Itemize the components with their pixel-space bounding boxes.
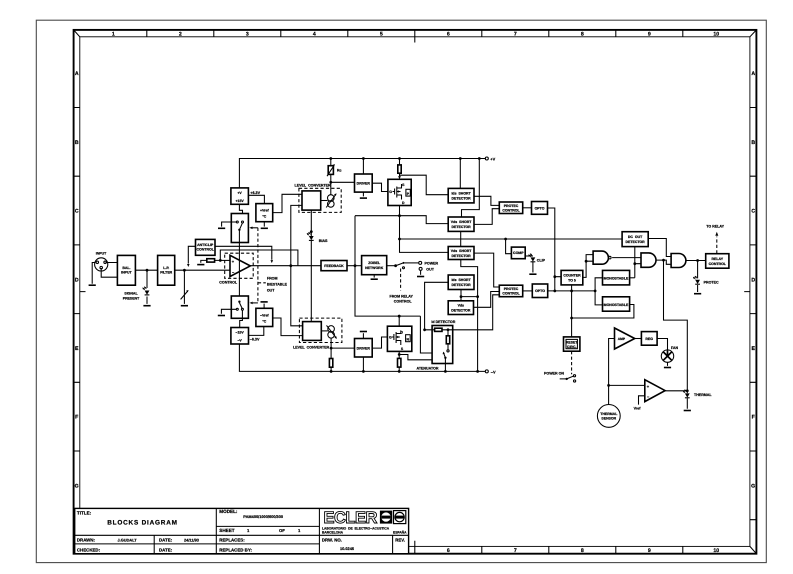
svg-text:DETECTOR: DETECTOR <box>452 254 472 258</box>
wire: Q2 source branch to attenuator switch <box>399 355 445 360</box>
switch: POWER ON <box>566 378 568 380</box>
wire: BAL.INPUT to L.P.FILTER <box>135 269 157 271</box>
wire: S1 left contact to ground <box>222 222 237 227</box>
svg-text:9: 9 <box>648 31 651 37</box>
block: -Vref temperature ref <box>256 308 273 326</box>
ground below signal present LED <box>143 305 150 307</box>
svg-text:DETECTOR: DETECTOR <box>452 225 472 229</box>
svg-text:–V: –V <box>237 339 242 343</box>
dashed control box around op-amp <box>225 253 254 278</box>
block: BAL. INPUT <box>117 255 135 285</box>
ground below DRIVER 1 <box>360 197 367 199</box>
svg-text:24/11/93: 24/11/93 <box>184 538 200 543</box>
svg-text:DATE:: DATE: <box>159 538 173 543</box>
LED: BIAS <box>307 232 314 240</box>
svg-text:B: B <box>751 140 755 146</box>
svg-text:Rc: Rc <box>337 169 342 173</box>
resistor R2 from +V to Q1 source <box>399 159 401 177</box>
wire: feedback loop around op-amp <box>220 250 298 266</box>
ground at POWER OUT terminal <box>417 276 424 278</box>
svg-text:TO 5: TO 5 <box>568 279 576 283</box>
svg-text:RESET: RESET <box>566 340 579 344</box>
wire: Vds3 bottom to -V rail <box>461 260 478 372</box>
svg-text:PROTEC: PROTEC <box>504 204 519 208</box>
svg-text:FROM: FROM <box>267 277 278 281</box>
svg-text:CONTROL: CONTROL <box>709 262 727 266</box>
block: RELAY CONTROL <box>706 254 729 269</box>
ECLER logo <box>322 509 407 535</box>
ground below XLR <box>89 284 96 286</box>
block: OPTO 1 <box>532 202 548 215</box>
svg-text:PROTEC: PROTEC <box>504 287 519 291</box>
wire: Ids4 input sense <box>425 282 449 330</box>
svg-text:5: 5 <box>380 31 383 37</box>
wire: Q1 drain node <box>400 206 449 253</box>
block: +Vref temperature ref <box>256 204 273 222</box>
svg-text:ESPAÑA: ESPAÑA <box>393 531 407 535</box>
svg-text:6: 6 <box>447 31 450 37</box>
ruler numbers bottom <box>447 548 719 554</box>
LED: CLIP <box>529 254 536 262</box>
op-amp U1 <box>230 255 250 276</box>
svg-text:FROM RELAY: FROM RELAY <box>390 294 414 298</box>
svg-text:DRW. NO.: DRW. NO. <box>322 538 342 543</box>
terminal: POWER OUT <box>419 261 422 264</box>
svg-text:COUNTER: COUNTER <box>563 273 581 277</box>
svg-text:A: A <box>75 71 79 77</box>
block: Ids SHORT DETECTOR (N side) <box>448 275 474 290</box>
ground at switch S2 left contact <box>218 315 225 317</box>
svg-text:DRIVER: DRIVER <box>357 182 371 186</box>
wire: anticlip right arrow to op-amp output <box>215 246 272 259</box>
svg-text:REG: REG <box>645 337 653 341</box>
wire: +15V box to switch S1 <box>239 204 242 222</box>
wire: comp out to clip LED <box>525 255 533 257</box>
svg-text:DRAWN:: DRAWN: <box>77 538 96 543</box>
svg-text:POWER: POWER <box>425 262 439 266</box>
svg-text:1: 1 <box>112 31 115 37</box>
level converter 2 (lower) dashed group <box>299 318 342 342</box>
svg-text:INPUT: INPUT <box>96 251 107 255</box>
wire: Ids4 bottom to Vds detector, joins -V sense <box>461 290 478 301</box>
svg-text:7: 7 <box>514 31 517 37</box>
wire: -Vref to level converter 2 <box>273 318 303 336</box>
svg-text:6: 6 <box>447 548 450 554</box>
ground below +Vref <box>261 227 268 229</box>
gate U3 AND <box>641 253 656 267</box>
svg-text:BLOCKS DIAGRAM: BLOCKS DIAGRAM <box>107 519 178 526</box>
svg-text:POWER ON: POWER ON <box>544 371 564 375</box>
svg-text:DATE:: DATE: <box>159 547 173 552</box>
svg-text:MONOSTABLE: MONOSTABLE <box>604 277 629 281</box>
LED: SIGNAL PRESENT <box>143 287 150 295</box>
LED: THERMAL <box>686 391 688 409</box>
svg-text:MODEL:: MODEL: <box>219 509 238 514</box>
wire: driver2 bottom to -V rail <box>362 357 364 371</box>
gate U4 AND <box>671 254 686 268</box>
wire: output to both level converters <box>291 205 303 325</box>
block: RESET CIRC (double border) <box>564 337 580 351</box>
svg-text:OUT: OUT <box>426 267 434 271</box>
svg-text:COMP: COMP <box>513 251 524 255</box>
block: DRIVER 1 <box>355 174 373 192</box>
relay contact to POWER OUT <box>396 263 403 266</box>
fan M1 <box>661 350 673 362</box>
block: Vds DETECTOR <box>448 301 473 315</box>
block: PROTEC CONTROL 1 <box>499 202 522 214</box>
svg-text:REV.: REV. <box>395 538 405 543</box>
wire: +15V to +Vref <box>248 195 264 203</box>
block: ANTICLIP CONTROL <box>196 239 216 255</box>
svg-text:2: 2 <box>179 31 182 37</box>
resistor R1 at op-amp + input <box>201 260 221 262</box>
svg-text:G: G <box>389 190 392 194</box>
svg-text:REPLACED BY:: REPLACED BY: <box>219 547 252 552</box>
dashed wire: FROM RELAY CONTROL <box>400 269 402 291</box>
sensor: THERMAL SENSOR <box>597 405 620 428</box>
svg-text:LEVEL CONVERTER: LEVEL CONVERTER <box>293 346 330 350</box>
wire: driver2 to N-MOSFET gate <box>372 337 387 348</box>
block: L.P. FILTER <box>158 255 175 285</box>
svg-text:PROTEC: PROTEC <box>704 280 719 284</box>
ground above DRIVER 2 <box>360 331 367 333</box>
wire: long protection rail to DC OUT DETECTOR <box>400 238 623 240</box>
block: MONOSTABLE 1 <box>603 270 630 285</box>
wire: -15V to -Vref <box>249 327 264 336</box>
block: DC OUT DETECTOR <box>622 232 648 247</box>
wire: reg to fan <box>657 339 667 350</box>
wire: Rc node to driver 1 <box>331 181 355 183</box>
svg-text:CONTROL: CONTROL <box>219 281 238 285</box>
terminal +V <box>485 157 488 160</box>
wire: + input to op-amp <box>220 259 230 261</box>
wire: driver1 to P-MOSFET gate <box>372 183 388 191</box>
switch S2 (lower mute switch) <box>231 296 248 318</box>
wire: DC out bottom to gate2 input tap <box>635 247 641 278</box>
svg-text:FAN: FAN <box>671 346 679 350</box>
ground at R1 <box>197 264 204 266</box>
level converter 1 (upper) dashed group <box>299 188 341 212</box>
-V bottom rail <box>239 344 485 371</box>
svg-text:BAL.: BAL. <box>122 266 130 270</box>
wire: NAND out to AND gate 2 <box>612 257 641 259</box>
potentiometer to ground (input level) <box>183 270 185 304</box>
wire: monostable2 out loop to reset node <box>572 305 634 319</box>
wire: - input from Vref <box>639 396 645 405</box>
svg-text:Vds SHORT: Vds SHORT <box>451 249 472 253</box>
wire: Vds2 bottom to Vds3 top <box>460 231 462 246</box>
svg-text:Vref: Vref <box>634 407 642 411</box>
svg-text:C: C <box>75 209 79 215</box>
wire: LC1 bottom through bias diode <box>310 210 312 322</box>
svg-text:MONOSTABLE: MONOSTABLE <box>604 303 629 307</box>
ruler numbers top <box>112 31 719 37</box>
transistor Q1 P-MOSFET <box>388 179 411 205</box>
wire: S2 left contact to ground <box>221 309 236 314</box>
wire: zobel to output relay contact <box>387 265 396 267</box>
wire: VCA2 bottom to driver2 and resistor <box>331 338 354 371</box>
svg-text:ZOBEL: ZOBEL <box>368 261 381 265</box>
svg-text:L.P.: L.P. <box>163 266 169 270</box>
svg-text:LEVEL CONVERTER: LEVEL CONVERTER <box>295 183 332 187</box>
svg-text:G: G <box>389 336 392 340</box>
svg-text:–Vref: –Vref <box>260 313 269 317</box>
wire: DC out detector output to gate3 <box>648 239 671 257</box>
svg-text:TITLE:: TITLE: <box>77 510 92 515</box>
block: -15V -V supply <box>231 328 249 345</box>
svg-text:TO RELAY: TO RELAY <box>706 225 724 229</box>
wire: counter bottom chain to reset circ <box>571 285 573 337</box>
terminal -V <box>485 370 488 373</box>
svg-text:OF: OF <box>279 528 285 533</box>
wire: S2 to -15V box <box>240 310 243 328</box>
svg-text:F: F <box>752 415 755 421</box>
wire: gate2 out to gate3 <box>656 260 671 264</box>
svg-text:+Vref: +Vref <box>260 209 269 213</box>
svg-text:PAM400/1000/600/300: PAM400/1000/600/300 <box>243 514 283 519</box>
svg-text:CONTROL: CONTROL <box>197 247 215 251</box>
block: +V +15V supply switch feed <box>231 188 249 204</box>
ruler letters left/right <box>75 71 756 489</box>
block: ZOBEL NETWORK <box>362 256 387 275</box>
wire: drain rail to output node and Vds sense <box>355 216 448 224</box>
wire: branch to signal present LED <box>146 270 148 304</box>
ground below CLIP LED <box>529 273 536 275</box>
gate U2 NAND <box>593 251 608 264</box>
svg-text:FILTER: FILTER <box>160 271 172 275</box>
svg-text:AMP: AMP <box>618 337 626 341</box>
resistor Rc (variable) <box>330 159 332 195</box>
svg-text:NETWORK: NETWORK <box>365 266 384 270</box>
block: REG <box>641 332 657 346</box>
svg-text:J.GUDALT: J.GUDALT <box>118 538 138 543</box>
wire: thermal comparator loop join <box>664 260 688 391</box>
block: MONOSTABLE 2 <box>603 297 630 311</box>
svg-text:BARCELONA: BARCELONA <box>322 531 344 535</box>
wire: opto1 output down to counter input <box>548 208 562 291</box>
wire: + input from sensor <box>609 384 645 386</box>
svg-text:°C: °C <box>262 319 266 323</box>
wire: Vds3 out to protec control 2 <box>474 253 499 287</box>
svg-text:INPUT: INPUT <box>121 271 132 275</box>
svg-text:8: 8 <box>581 548 584 554</box>
resistor R3 to -V rail <box>329 359 332 368</box>
svg-text:10.0245: 10.0245 <box>340 546 355 551</box>
resistor R5 horizontal in Id detector <box>425 295 500 330</box>
output node vertical (speaker line) <box>355 216 420 316</box>
svg-text:DETECTOR: DETECTOR <box>451 309 471 313</box>
svg-text:–6.3V: –6.3V <box>250 338 260 342</box>
block: Vds SHORT DETECTOR 3 <box>448 247 474 260</box>
svg-text:DETECTOR: DETECTOR <box>626 240 646 244</box>
ground above -Vref <box>263 304 265 309</box>
svg-text:3: 3 <box>246 31 249 37</box>
svg-text:°C: °C <box>262 215 266 219</box>
connector J1 XLR input <box>95 258 108 271</box>
block: COUNTER TO 5 <box>561 270 583 285</box>
ground above driver2 <box>362 333 364 338</box>
svg-text:DETECTOR: DETECTOR <box>452 283 472 287</box>
block: Vds SHORT DETECTOR (P side) <box>448 217 474 231</box>
wire: feedback to zobel <box>347 265 362 267</box>
wire: Q2 drain to output rail <box>398 316 400 326</box>
wire: Ids1 out to protec control 1 <box>474 196 499 205</box>
svg-text:D: D <box>75 277 79 283</box>
svg-text:G: G <box>75 483 79 489</box>
svg-text:SENSOR: SENSOR <box>601 417 616 421</box>
svg-text:E: E <box>75 346 79 352</box>
svg-text:A: A <box>751 71 755 77</box>
svg-text:8: 8 <box>581 31 584 37</box>
svg-text:OPTO: OPTO <box>535 289 545 293</box>
svg-text:OUT: OUT <box>267 288 275 292</box>
svg-text:Id DETECTOR: Id DETECTOR <box>431 320 455 324</box>
svg-text:CIRC.: CIRC. <box>567 345 577 349</box>
wire: comparator out joins protection chain <box>665 390 687 392</box>
svg-text:9: 9 <box>648 548 651 554</box>
svg-text:SIGNAL: SIGNAL <box>124 292 138 296</box>
wire: Vds2 out to protec control 1 <box>474 209 499 225</box>
block: DRIVER 2 <box>355 339 373 358</box>
ground below +Vref <box>263 222 265 227</box>
svg-text:BIAS: BIAS <box>319 239 328 243</box>
ground below THERMAL LED <box>684 410 691 412</box>
VCA symbol upper <box>321 200 328 202</box>
svg-text:+15V: +15V <box>235 199 244 203</box>
ruler ticks top/bottom <box>74 30 757 554</box>
svg-text:4: 4 <box>313 31 316 37</box>
block: FEEDBACK <box>321 261 347 271</box>
svg-text:Ids SHORT: Ids SHORT <box>451 191 471 195</box>
svg-text:+6.3V: +6.3V <box>250 191 260 195</box>
svg-text:CHECKED:: CHECKED: <box>77 547 101 552</box>
top +V rail <box>239 159 485 188</box>
svg-text:FEEDBACK: FEEDBACK <box>324 264 344 268</box>
wire: Q2 source + resistor R4 to -V rail <box>398 351 400 371</box>
svg-text:–V: –V <box>491 369 496 374</box>
wire: counter out to NAND inputs <box>583 255 593 278</box>
wire: +Vref to level converter 1 <box>273 194 302 212</box>
svg-text:BIESTABLE: BIESTABLE <box>267 283 288 287</box>
svg-text:SHEET: SHEET <box>219 528 235 533</box>
svg-text:7: 7 <box>514 548 517 554</box>
wire: output node to attenuator contact <box>420 316 440 353</box>
ground below input potentiometer <box>181 305 188 307</box>
wire: monostable inputs from opto line <box>595 278 602 305</box>
svg-text:Vds SHORT: Vds SHORT <box>451 220 472 224</box>
block: COMP <box>511 247 525 259</box>
svg-text:CLIP: CLIP <box>537 259 546 263</box>
attenuator switch blade <box>444 357 446 359</box>
svg-text:CONTROL: CONTROL <box>394 300 413 304</box>
svg-text:–15V: –15V <box>236 331 245 335</box>
wire: Vds detector out to protec control 2 <box>474 292 500 308</box>
svg-text:10: 10 <box>713 548 719 554</box>
svg-text:Ids SHORT: Ids SHORT <box>451 278 471 282</box>
block: OPTO 2 <box>532 284 547 298</box>
amplifier A1 (AMP) <box>615 328 635 349</box>
svg-text:10: 10 <box>713 31 719 37</box>
svg-text:REPLACES:: REPLACES: <box>219 538 245 543</box>
svg-text:ECLER: ECLER <box>324 509 378 527</box>
svg-text:RELAY: RELAY <box>712 257 724 261</box>
dashed wire: FROM BIESTABLE OUT control <box>258 228 266 303</box>
wire: gate3 out to relay control <box>686 260 706 262</box>
title block <box>75 508 409 553</box>
LED: PROTEC <box>697 261 699 293</box>
transistor Q2 N-MOSFET <box>387 326 411 351</box>
svg-text:+V: +V <box>237 191 242 195</box>
svg-text:DC OUT: DC OUT <box>628 235 643 239</box>
ground below PROTEC LED <box>694 293 701 295</box>
svg-text:B: B <box>75 140 79 146</box>
switch S1 (upper mute switch) <box>231 214 248 243</box>
svg-text:F: F <box>75 415 78 421</box>
VCA symbol lower <box>321 330 328 332</box>
svg-text:Vds: Vds <box>458 304 464 308</box>
svg-text:C: C <box>751 209 755 215</box>
node: input signal trunk wires <box>92 263 117 284</box>
wire: anticlip left arrow to signal line <box>188 246 195 263</box>
svg-text:+V: +V <box>490 156 495 161</box>
ground at switch S1 left contact <box>218 227 225 229</box>
wire: thermal sensor to amp and comparator <box>609 339 615 405</box>
ground below FAN <box>664 367 671 369</box>
svg-text:OPTO: OPTO <box>535 206 545 210</box>
dashed wire: reset to power-on switch <box>571 351 573 374</box>
svg-text:THERMAL: THERMAL <box>600 412 618 416</box>
svg-text:THERMAL: THERMAL <box>694 393 712 397</box>
wire: opto outputs to monostable inputs <box>548 290 596 292</box>
wire: Q1 source sense to Ids short detector 1 <box>400 175 449 195</box>
svg-text:D: D <box>751 277 755 283</box>
wire: S1 control arrow from bistable dashed line <box>253 227 258 229</box>
block: PROTEC CONTROL 2 <box>499 285 522 297</box>
svg-text:ATENUATOR: ATENUATOR <box>417 367 439 371</box>
svg-text:PRESENT: PRESENT <box>123 296 140 300</box>
ground below ZOBEL NETWORK <box>371 278 378 280</box>
svg-text:ANTICLIP: ANTICLIP <box>197 243 214 247</box>
wire: op-amp output trunk <box>250 265 321 267</box>
wire: monostable1 out to DC-out vertical <box>630 277 635 279</box>
svg-text:G: G <box>751 483 755 489</box>
svg-text:DETECTOR: DETECTOR <box>452 197 472 201</box>
svg-text:DRIVER: DRIVER <box>357 347 371 351</box>
wire: L.P. FILTER to op-amp <box>175 269 230 271</box>
wire: bias rail through op-amp to lower switch <box>238 230 240 302</box>
svg-text:CONTROL: CONTROL <box>502 208 520 212</box>
svg-text:CONTROL: CONTROL <box>502 292 520 296</box>
wire: rail tap to comparator COMP <box>506 239 512 254</box>
resistor R6 vertical in Id detector <box>447 330 449 350</box>
ground above -Vref <box>261 301 268 303</box>
block: Ids SHORT DETECTOR (P side) <box>448 188 474 203</box>
dashed wire: TO RELAY <box>716 237 718 254</box>
comparator A2 thermal <box>645 380 665 402</box>
svg-text:E: E <box>751 346 755 352</box>
